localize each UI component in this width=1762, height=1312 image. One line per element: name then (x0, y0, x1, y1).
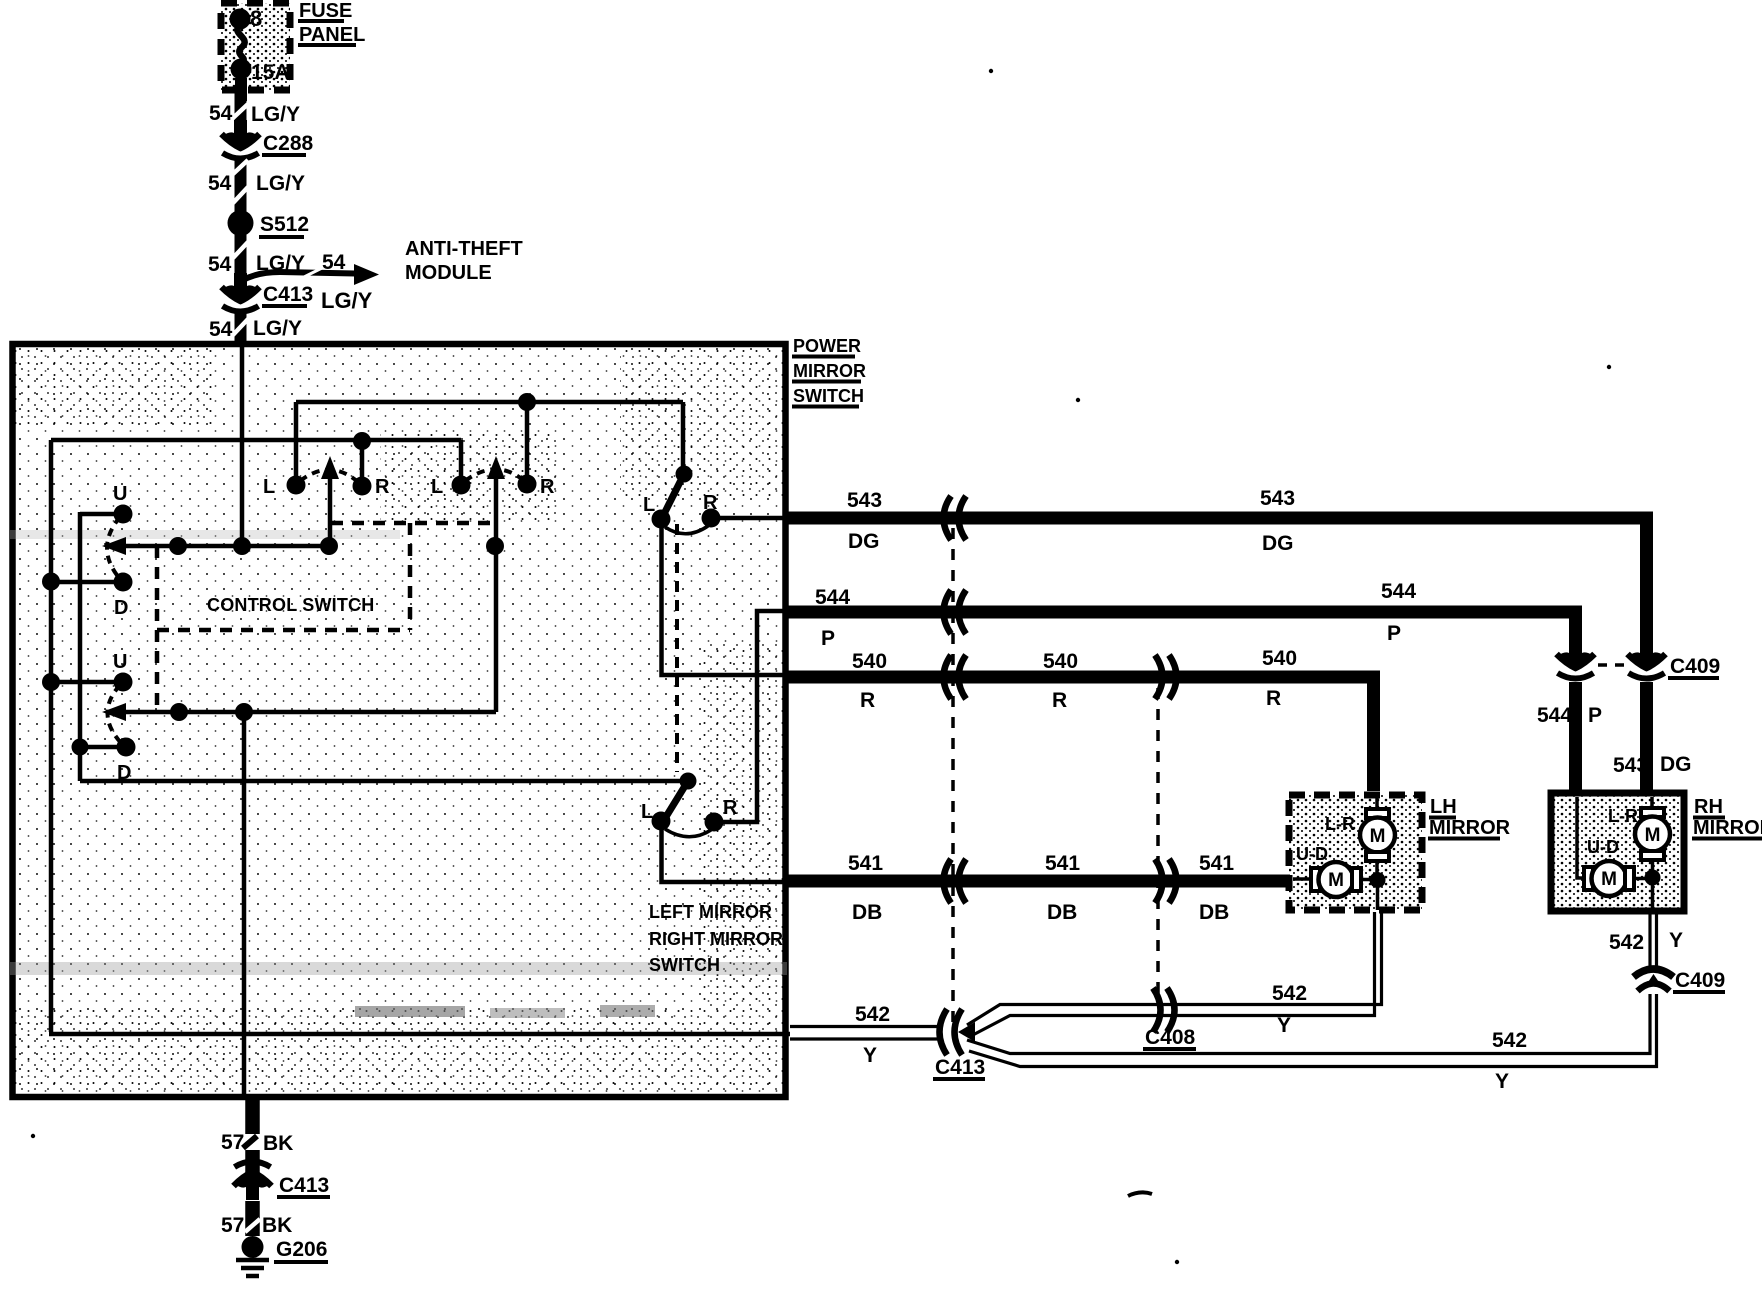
svg-text:R: R (1266, 687, 1281, 710)
label FUSE PANEL (298, 0, 365, 46)
selector switch 1 contact L (643, 494, 671, 529)
svg-text:543: 543 (1260, 487, 1295, 510)
svg-text:541: 541 (1045, 852, 1080, 875)
label ANTI-THEFT MODULE (405, 238, 523, 284)
node LR-2 shaft crossing (486, 537, 504, 555)
control switch dashed outline (157, 523, 496, 712)
svg-text:542: 542 (1492, 1029, 1527, 1052)
svg-text:54: 54 (208, 172, 232, 195)
wire 544 P (switch to RH mirror) (788, 580, 1576, 650)
svg-text:57: 57 (221, 1214, 244, 1237)
svg-text:MIRROR: MIRROR (793, 361, 866, 381)
node wiper1-a (169, 537, 187, 555)
connector C288 (222, 120, 314, 159)
svg-text:POWER: POWER (793, 336, 861, 356)
switch UD-1 wiper arrow (102, 537, 331, 555)
power mirror switch box (10, 344, 787, 1097)
switch UD-2 contact D (117, 738, 136, 785)
svg-text:DB: DB (1199, 901, 1229, 924)
wire LH common to box bottom (1376, 880, 1380, 910)
svg-text:BK: BK (262, 1214, 292, 1237)
wire 54 LG/Y (C413 to switch box) (209, 311, 302, 344)
selector linkage dashed (675, 524, 679, 772)
svg-text:543: 543 (1613, 754, 1648, 777)
connector C413 dashed line (951, 528, 955, 1022)
selector switch 1 contact R (702, 492, 721, 528)
node bus1 / LR-2 R (518, 393, 536, 411)
fuse F (8 / 15A) (230, 9, 252, 102)
ground G206 (236, 1236, 328, 1276)
connector C408 dashed line (1156, 688, 1160, 998)
connector C408 on 542 upper branch (1143, 988, 1196, 1049)
wire 542 Y (switch exit, double line) (790, 1003, 942, 1067)
svg-text:P: P (1387, 622, 1401, 645)
svg-text:U-D: U-D (1587, 837, 1619, 857)
svg-text:Y: Y (1495, 1070, 1509, 1093)
wire D2 to left riser (80, 745, 126, 750)
wire 57 BK (C413 to G206) (221, 1201, 292, 1237)
switch LR-1 travel arc (300, 470, 358, 482)
svg-text:542: 542 (855, 1003, 890, 1026)
svg-text:MIRROR: MIRROR (1693, 817, 1762, 839)
svg-text:C413: C413 (263, 283, 313, 306)
fuse value label 15A (251, 61, 290, 84)
switch UD-2 wiper arrow (102, 703, 496, 721)
wire 543 DG below C409 (1613, 682, 1692, 791)
svg-text:LG/Y: LG/Y (321, 288, 373, 313)
svg-text:DG: DG (848, 530, 880, 553)
wire 541 DB (switch to LH mirror) (788, 852, 1290, 924)
svg-text:R: R (375, 476, 390, 498)
wire 543 DG (switch to RH mirror) (788, 487, 1647, 640)
connector C413 (ground) (234, 1162, 331, 1201)
switch UD-2 contact U (113, 651, 133, 692)
svg-text:L: L (641, 801, 653, 823)
wire selector1 R to 543 exit (711, 516, 790, 521)
LH mirror L-R motor M (1360, 798, 1395, 861)
connector C408 on 540 (1155, 655, 1177, 699)
label U-D (RH) (1587, 837, 1619, 857)
node wiper2-ground (235, 703, 253, 721)
wire 542 Y (RH mirror down to C409) (1609, 914, 1683, 970)
svg-text:542: 542 (1272, 982, 1307, 1005)
wire feed 54 inside switch (to wiper bus 1) (240, 344, 245, 546)
wire selector2 L to 541 exit (662, 827, 791, 882)
wire UD motor to junction (LH) (1361, 878, 1377, 882)
connector C413 on 542 (933, 1009, 985, 1079)
svg-text:R: R (1052, 689, 1067, 712)
wire LR-2 R to bus1 (525, 402, 530, 484)
svg-text:544: 544 (815, 586, 850, 609)
svg-text:DB: DB (1047, 901, 1077, 924)
wire 54 LG/Y (fuse panel to C288) (209, 91, 300, 126)
switch LR-2 travel arc (465, 469, 523, 481)
wire 57 BK (switch to C413) (221, 1097, 293, 1175)
fuse panel box (221, 3, 290, 90)
svg-text:54: 54 (209, 102, 233, 125)
svg-text:R: R (540, 476, 555, 498)
svg-text:54: 54 (209, 318, 233, 341)
svg-text:U-D: U-D (1296, 844, 1328, 864)
svg-text:MODULE: MODULE (405, 262, 492, 284)
svg-text:L: L (643, 494, 655, 516)
connector C413 on 540 (944, 655, 967, 699)
switch UD-1 contact U (113, 483, 133, 524)
node wiper1-feed (233, 537, 251, 555)
switch UD-1 travel arc (107, 517, 120, 579)
RH mirror box (1551, 793, 1684, 911)
svg-text:544: 544 (1537, 704, 1572, 727)
wire 540 R (switch to LH mirror) (788, 647, 1374, 791)
svg-text:DG: DG (1660, 753, 1692, 776)
switch UD-2 travel arc (107, 685, 122, 744)
node on left column (D contact feed) (42, 573, 60, 591)
svg-text:MIRROR: MIRROR (1429, 817, 1511, 839)
svg-text:54: 54 (208, 253, 232, 276)
connector C413 on 541 (944, 859, 967, 903)
svg-text:L-R: L-R (1325, 814, 1355, 834)
connector C409 on 542 below RH mirror (1634, 969, 1726, 992)
svg-text:540: 540 (1043, 650, 1078, 673)
svg-text:C409: C409 (1675, 969, 1725, 992)
svg-text:M: M (1328, 870, 1344, 891)
node D2 riser (72, 739, 89, 756)
wire left column / 542 return inside box (49, 440, 790, 1034)
node bus2 / LR-1 R (353, 432, 371, 450)
svg-text:C413: C413 (279, 1174, 329, 1197)
label LEFT MIRROR RIGHT MIRROR SWITCH (649, 902, 783, 975)
svg-text:R: R (860, 689, 875, 712)
selector switch 2 contact L (641, 801, 671, 831)
wire 54 LG/Y (S512 to C413) (208, 234, 305, 282)
svg-text:SWITCH: SWITCH (649, 955, 720, 975)
svg-text:C408: C408 (1145, 1026, 1196, 1049)
svg-text:M: M (1601, 869, 1617, 890)
svg-text:541: 541 (1199, 852, 1234, 875)
label LH MIRROR (1428, 796, 1511, 839)
selector switch 1 travel arc (665, 526, 708, 534)
svg-text:SWITCH: SWITCH (793, 386, 864, 406)
LH mirror box (1289, 795, 1422, 910)
connector C409 (544/543 to RH mirror) (1557, 640, 1721, 679)
svg-text:L: L (263, 476, 275, 498)
svg-text:540: 540 (1262, 647, 1297, 670)
svg-text:LH: LH (1430, 796, 1457, 818)
wire LR motor to junction (LH) (1375, 861, 1379, 880)
svg-text:M: M (1370, 826, 1386, 847)
switch LR-1 contact L (263, 476, 306, 499)
wire D1 to left column (51, 580, 123, 585)
node RH mirror common (1645, 870, 1661, 886)
switch UD-1 contact D (114, 573, 133, 620)
svg-text:P: P (821, 627, 835, 650)
switch LR-2 contact R (518, 475, 556, 499)
label L-R (LH) (1325, 814, 1355, 834)
switch LR-2 wiper arrow (487, 456, 505, 712)
wire ground drop (wiper2 to box bottom) (242, 712, 247, 1097)
selector switch 1 (left mirror) pivot (662, 402, 693, 518)
wire selector2 feed line (80, 779, 688, 784)
selector switch 2 (right mirror) pivot (664, 773, 697, 821)
connector C408 on 541 (1155, 859, 1177, 903)
svg-text:C288: C288 (263, 132, 314, 155)
wire U2 to left column (51, 680, 123, 685)
stray scan mark (1128, 1192, 1152, 1196)
svg-text:D: D (114, 597, 128, 619)
svg-text:ANTI-THEFT: ANTI-THEFT (405, 238, 523, 260)
fuse pin label 8 (250, 6, 262, 31)
switch LR-2 contact L (431, 476, 471, 499)
wire LR-1 R to bus2 (360, 441, 365, 486)
svg-text:543: 543 (847, 489, 882, 512)
wire 54 LG/Y (C288 to S512) (208, 160, 305, 212)
label U-D (LH) (1296, 844, 1328, 864)
label CONTROL SWITCH (207, 595, 374, 615)
wire U1 to left riser (80, 512, 123, 517)
svg-text:57: 57 (221, 1131, 244, 1154)
label RH MIRROR (1692, 796, 1762, 839)
wire LR-1 L to bus1 (294, 402, 299, 485)
svg-text:DB: DB (852, 901, 882, 924)
svg-text:S512: S512 (260, 213, 309, 236)
node LH mirror common (1370, 872, 1386, 888)
label POWER MIRROR SWITCH (792, 336, 866, 407)
svg-text:15A: 15A (251, 61, 290, 84)
wire LR motor to junction (RH) (1651, 860, 1655, 877)
svg-text:BK: BK (263, 1132, 293, 1155)
svg-text:U: U (113, 651, 127, 673)
selector switch 2 contact R (705, 797, 739, 832)
svg-text:C409: C409 (1670, 655, 1720, 678)
svg-text:542: 542 (1609, 931, 1644, 954)
svg-text:M: M (1645, 825, 1661, 846)
svg-text:L: L (431, 476, 443, 498)
svg-text:Y: Y (1669, 929, 1683, 952)
svg-text:U: U (113, 483, 127, 505)
svg-text:LG/Y: LG/Y (251, 103, 300, 126)
svg-text:540: 540 (852, 650, 887, 673)
switch LR-1 wiper arrow (321, 456, 339, 546)
svg-text:RH: RH (1694, 796, 1723, 818)
branch wire 54 LG/Y to anti-theft module (243, 251, 379, 313)
wire bus line 2 (to left column) (51, 438, 461, 443)
svg-text:8: 8 (250, 6, 262, 31)
RH mirror L-R motor M (1635, 797, 1670, 860)
svg-text:R: R (703, 492, 718, 514)
wire bus line 1 (top, to selector) (296, 400, 683, 405)
svg-text:L-R: L-R (1608, 806, 1638, 826)
wire 542 Y upper branch (C413 to LH mirror) (967, 912, 1382, 1037)
svg-text:P: P (1588, 704, 1602, 727)
svg-text:544: 544 (1381, 580, 1416, 603)
svg-text:LEFT MIRROR: LEFT MIRROR (649, 902, 772, 922)
wire selector1 L to 540 exit (662, 524, 791, 675)
svg-text:RIGHT MIRROR: RIGHT MIRROR (649, 929, 783, 949)
svg-text:R: R (723, 797, 738, 819)
selector switch 2 travel arc (665, 829, 711, 837)
connector C413 on 544 (944, 590, 967, 634)
svg-text:FUSE: FUSE (299, 0, 352, 22)
svg-text:LG/Y: LG/Y (256, 172, 305, 195)
svg-text:DG: DG (1262, 532, 1294, 555)
label L-R (RH) (1608, 806, 1638, 826)
svg-text:LG/Y: LG/Y (253, 317, 302, 340)
node wiper1-shaft (320, 537, 338, 555)
svg-text:541: 541 (848, 852, 883, 875)
svg-text:C413: C413 (935, 1056, 985, 1079)
svg-text:PANEL: PANEL (299, 24, 365, 46)
switch LR-1 contact R (353, 476, 391, 498)
LH mirror U-D motor M (1293, 862, 1361, 897)
svg-text:54: 54 (322, 251, 346, 274)
wire 542 Y lower branch (C413 to RH mirror) (967, 994, 1657, 1093)
node on left column (U contact feed) (42, 673, 60, 691)
svg-text:Y: Y (1277, 1014, 1291, 1037)
connector C413 on 543 (944, 496, 967, 540)
splice S512 (228, 210, 310, 237)
RH mirror U-D motor M (1577, 797, 1634, 896)
wire 544 P below C409 (1537, 682, 1602, 791)
wire RH common to box bottom (1651, 878, 1655, 912)
node wiper2-a (170, 703, 188, 721)
svg-text:Y: Y (863, 1044, 877, 1067)
wire selector2 R to 544 exit (714, 611, 790, 822)
connector C413 (feed into switch) (222, 273, 314, 312)
wire LR-2 L to bus2 (459, 440, 464, 485)
svg-text:CONTROL SWITCH: CONTROL SWITCH (207, 595, 374, 615)
svg-text:G206: G206 (276, 1238, 327, 1261)
wire left riser (U1 to D2 to selector feed) (78, 512, 83, 781)
wire UD motor to junction (RH) (1634, 877, 1652, 881)
